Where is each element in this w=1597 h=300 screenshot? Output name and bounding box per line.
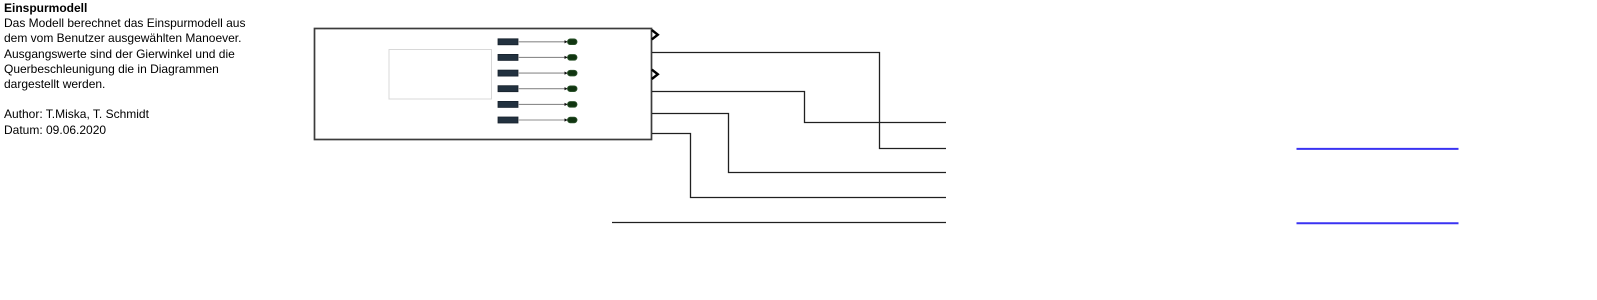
wire W5: long bottom wire [612, 222, 946, 224]
output port 3 chevron (unconnected) [652, 70, 658, 79]
output port 1 chevron (unconnected) [652, 30, 658, 39]
wire W2: port4 -> right [652, 92, 946, 123]
selected wire segment blue 1 [1297, 148, 1459, 150]
annotation text block [4, 1, 245, 138]
wire W4: port6 -> right [652, 134, 946, 198]
slider row 3 [498, 70, 577, 76]
wire W1: port2 -> right [652, 53, 946, 149]
slider row 1 [498, 39, 577, 45]
slider row 5 [498, 101, 577, 107]
subsystem block Einspurmodell [315, 29, 652, 140]
slider row 2 [498, 54, 577, 60]
wire W3: port5 -> right [652, 114, 946, 173]
inner image placeholder rect [389, 50, 492, 100]
slider row 6 [498, 117, 577, 123]
slider row 4 [498, 86, 577, 92]
selected wire segment blue 2 [1297, 222, 1459, 224]
